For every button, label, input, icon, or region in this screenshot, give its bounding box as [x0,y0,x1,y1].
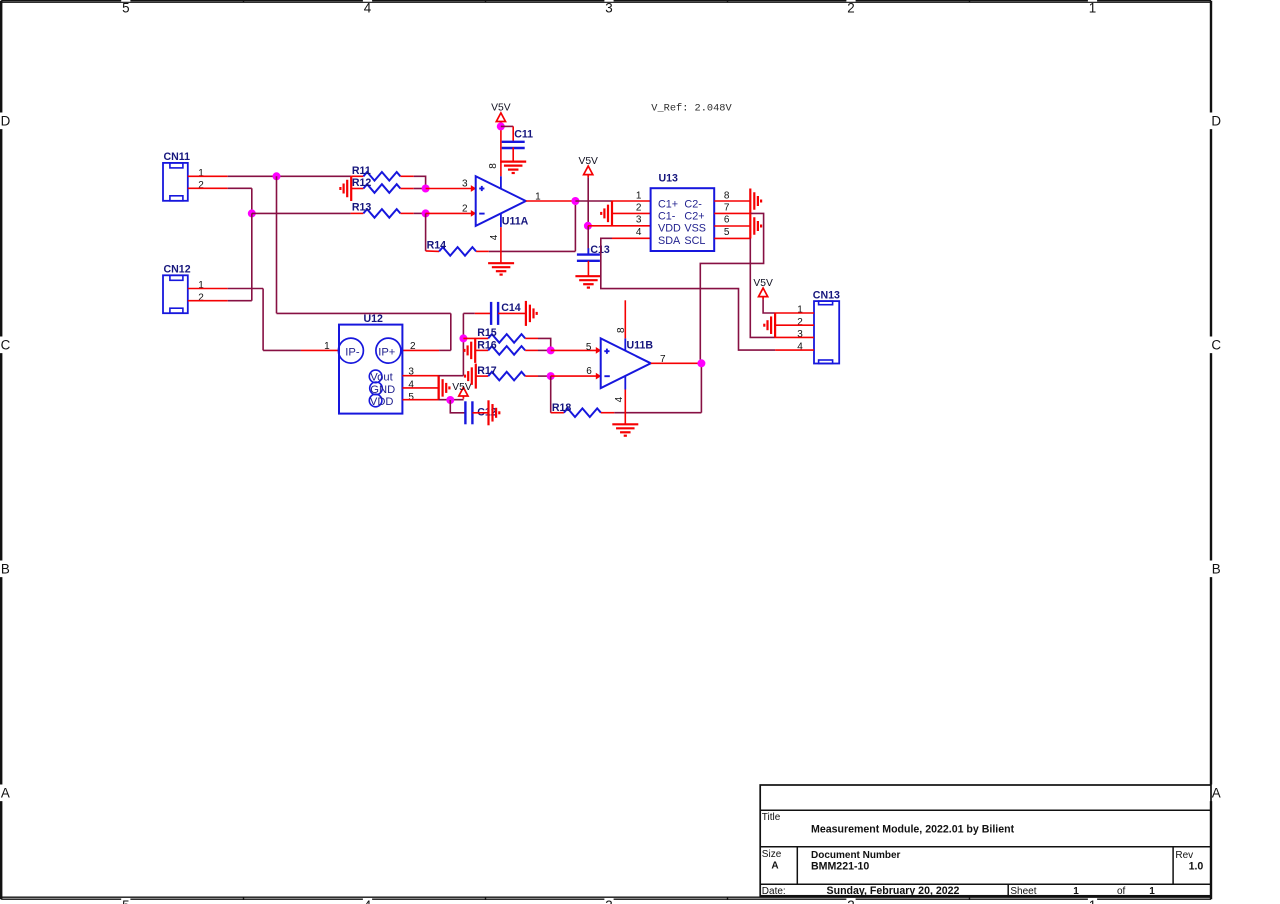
svg-text:V5V: V5V [578,156,598,167]
svg-text:2: 2 [797,317,803,328]
svg-text:Size: Size [762,849,782,860]
wire feedback col575 [574,201,576,252]
CN13 pin 4 label [797,342,803,353]
annotation V_Ref: 2.048V [651,103,732,115]
node junction R15/R16 out [547,346,555,354]
svg-text:1: 1 [198,168,204,179]
svg-text:CN12: CN12 [164,264,191,276]
wire to U11B pin6 [551,373,602,380]
svg-text:IP-: IP- [345,346,360,358]
U11A output wire [526,200,576,202]
U11B output wire [651,362,702,364]
node junction R15 input [459,334,467,342]
ground at R12 input [340,176,351,201]
svg-text:5: 5 [586,342,592,353]
ground below C11 [500,162,526,173]
svg-text:1: 1 [1149,886,1155,897]
svg-text:A: A [1212,785,1221,800]
wire col251 down to CN12 pin2 [251,213,253,300]
resistor R15 [463,327,538,343]
wire CN12 pin1 maroon [228,288,263,290]
wire col463 riser [462,313,464,375]
svg-text:VSS: VSS [684,223,706,235]
U11B pin6 number [586,366,592,377]
power V5V above U11A [491,103,511,125]
sheet border right line [1210,1,1212,900]
svg-text:U11B: U11B [627,340,654,352]
sheet border top outer line [1,0,1211,2]
svg-text:B: B [1212,561,1221,576]
wire col263 down [262,289,264,351]
svg-text:1: 1 [1073,886,1079,897]
wire VDD maroon [439,399,464,401]
wire U13 pin4 red [612,237,651,239]
svg-text:CN11: CN11 [164,151,191,163]
wire to U11B pin5 [551,347,602,354]
svg-text:8: 8 [488,163,499,169]
U13 right pin 8 number [724,190,730,201]
U13 right pin 7 number [724,203,730,214]
svg-text:VDD: VDD [370,396,394,408]
svg-text:4: 4 [489,234,500,240]
svg-text:5: 5 [724,227,730,238]
svg-text:U13: U13 [659,172,679,184]
svg-text:4: 4 [614,396,625,402]
CN11 pin 1 label [198,168,204,179]
ground at R16 input [464,338,475,363]
svg-text:R11: R11 [352,165,371,177]
resistor R14 [426,240,489,256]
wire V5V col588 down [587,177,589,225]
U13 left pin 2 number [636,203,642,214]
U13 left pin 3 number [636,215,642,226]
U13 left pin 1 number [636,190,642,201]
svg-text:V5V: V5V [452,382,472,393]
svg-text:R17: R17 [477,365,497,377]
wire U12 pin4 red [402,387,438,389]
wire R16 out maroon [538,349,551,351]
wire U13 pin1 red [612,200,651,202]
C12 right lead [472,412,488,414]
wire feedback col701 [700,363,702,412]
svg-text:7: 7 [724,203,730,214]
wire CN11 pin2 maroon [228,187,252,189]
U11A pin4 number [489,234,500,240]
svg-text:6: 6 [724,215,730,226]
node junction R13 out [422,209,430,217]
svg-text:R12: R12 [352,177,372,189]
U11B pin7 number [660,354,666,365]
svg-text:3: 3 [605,898,612,904]
svg-text:C2+: C2+ [684,211,704,223]
resistor R12 [351,177,414,193]
svg-text:4: 4 [636,227,642,238]
U11A pin1 number [535,191,541,202]
ground at U12 pin4 [439,375,450,400]
wire R12 out maroon [414,188,426,190]
U12 pin1 number [324,341,330,352]
wire CN13 pin2 red [775,324,814,326]
wire CN13 pin1 red [775,312,814,314]
svg-text:1: 1 [1089,898,1096,904]
CN11 pin 2 label [198,180,204,191]
wire R18 out maroon [614,412,701,414]
svg-text:D: D [1,113,11,128]
wire col251 down [251,188,253,213]
ground at U13 pin6 [750,214,761,239]
wire R14 out maroon [489,250,576,252]
svg-text:BMM221-10: BMM221-10 [811,860,869,872]
sheet border left line [0,1,2,900]
CN12 pin 1 label [198,280,204,291]
wire IP+ horizontal y313 [277,312,451,314]
U11A pin8 stub blue [500,176,502,188]
U11B pin8 stub blue [624,338,626,350]
svg-text:5: 5 [408,392,414,403]
ground at U13 pin8 [750,189,761,214]
capacitor C14 [491,302,521,325]
wire U12 pin2 maroon [439,349,451,351]
title block text [762,812,1204,897]
wire CN13 pin3 red [775,336,814,338]
U11B pin4 wire red [624,390,626,425]
wire U13 pin6 red [714,225,750,227]
wire C12 lead [450,400,465,413]
svg-text:R13: R13 [352,202,372,214]
svg-text:C: C [1211,337,1221,352]
svg-text:2: 2 [847,898,854,904]
svg-text:Sheet: Sheet [1010,886,1036,897]
node junction VDD/C12 [446,396,454,404]
svg-text:V_Ref: 2.048V: V_Ref: 2.048V [651,103,732,115]
wire R11 out corner [414,176,426,188]
wire U13 pin2 red [612,212,651,214]
sheet border bottom outer line [1,898,1211,900]
U11B pin8 wire red [624,300,626,338]
wire CN11 pin1 red stub [188,175,228,177]
U11A pin3 number [462,178,468,189]
wire Vout to col463 [439,375,464,377]
svg-text:2: 2 [198,180,204,191]
svg-text:Title: Title [762,812,781,823]
svg-text:VDD: VDD [658,223,681,235]
wire CN13 pin4 red [775,349,814,351]
wire CN12 pin1 red stub [188,288,228,290]
chip U12 [338,313,402,414]
node junction CN11p1/riser [273,172,281,180]
U11A pin8 wire red [500,126,502,176]
svg-text:C11: C11 [514,128,533,140]
chip U13 [651,172,715,251]
svg-text:R15: R15 [477,327,497,339]
svg-text:4: 4 [364,0,372,15]
svg-text:2: 2 [462,204,468,215]
svg-text:Sunday, February 20, 2022: Sunday, February 20, 2022 [827,885,960,897]
wire U12 pin5 red [402,399,438,401]
wire R17 out maroon [538,375,551,377]
node junction col251/R13 row [248,209,256,217]
svg-text:U11A: U11A [502,216,529,228]
svg-text:Measurement Module, 2022.01 by: Measurement Module, 2022.01 by Bilient [811,824,1015,836]
U12 pin5 number [408,392,414,403]
ground right of C12 [489,400,500,425]
svg-text:3: 3 [462,178,468,189]
wire to U11A pin3 [426,185,477,192]
svg-text:of: of [1117,886,1126,897]
svg-text:4: 4 [408,380,414,391]
svg-text:3: 3 [605,0,612,15]
connector CN12 [163,264,191,314]
ground at U13 pin2 [601,201,612,226]
svg-text:D: D [1211,113,1221,128]
connector CN11 [163,151,190,201]
node junction U11A out [571,197,579,205]
CN13 pin 2 label [797,317,803,328]
wire CN12 pin2 row maroon [228,300,252,302]
node junction U11B out [697,359,705,367]
wire C14 left lead [475,312,491,314]
C14 right lead [498,312,526,314]
svg-text:Date:: Date: [762,886,786,897]
capacitor C11 lead [501,126,513,141]
wire to U11A pin2 [426,210,477,217]
U11A pin8 number [488,163,499,169]
node junction R11/R12 out [422,185,430,193]
title block frame [760,785,1211,896]
C11 bottom lead [512,147,514,161]
svg-text:5: 5 [122,0,129,15]
wire U13 pin3 red [588,225,651,227]
U11B pin4 number [614,396,625,402]
U11B pin5 number [586,342,592,353]
sheet border bottom inner line [1,896,1211,898]
ground at CN13 pin2 [764,313,775,338]
svg-text:1.0: 1.0 [1189,860,1204,872]
svg-text:B: B [1,561,10,576]
svg-text:2: 2 [636,203,642,214]
capacitor C11 [502,128,533,148]
op-amp U11A [476,176,529,227]
svg-text:R16: R16 [477,340,497,352]
svg-text:3: 3 [636,215,642,226]
wire col425 down to R14 [425,213,427,251]
ground below U11A [488,263,514,274]
border zone ticks [244,0,970,900]
capacitor C13 [577,244,610,261]
CN13 pin 3 label [797,329,803,340]
svg-text:SDA: SDA [658,235,681,247]
wire C2+ route [700,213,763,363]
svg-text:R18: R18 [552,402,572,414]
svg-text:C14: C14 [501,302,521,314]
wire riser col276 down to IP+ line [276,176,278,313]
svg-text:2: 2 [847,0,854,15]
U12 pin2 number [410,341,416,352]
svg-text:V5V: V5V [753,278,773,289]
wire CN11 pin2 red stub [188,187,228,189]
CN13 pin 1 label [797,305,803,316]
wire R13 out maroon [414,212,426,214]
ground at R17 input [465,364,476,389]
wire V5V to C13 [587,226,589,255]
wire SDA maroon [601,238,775,350]
wire U12 pin1 red [301,349,339,351]
U12 pin4 number [408,380,414,391]
svg-text:A: A [771,860,778,871]
wire IP+ riser col450 [450,313,452,350]
power V5V col588 [578,156,598,178]
ground right of C14 [526,301,537,326]
svg-text:V5V: V5V [491,103,511,114]
svg-text:C1-: C1- [658,211,676,223]
node junction V5V/C11 [497,122,505,130]
svg-text:U12: U12 [364,313,384,325]
node junction V5V/U13 VDD [584,222,592,230]
svg-text:IP+: IP+ [378,346,395,358]
ground below U11B [612,424,638,435]
svg-text:2: 2 [198,292,204,303]
svg-text:C2-: C2- [684,198,702,210]
wire to U12 pin1 maroon [263,349,301,351]
wire C14 top corner [463,312,474,314]
C13 bottom lead [587,261,589,276]
U11B pin4 stub blue [624,376,626,390]
U13 left pin 4 number [636,227,642,238]
wire CN11 pin1 to R11 [228,175,352,177]
svg-text:6: 6 [586,366,592,377]
wire V5V to CN13 pin1 [763,299,775,313]
resistor R16 [475,340,538,355]
svg-text:4: 4 [364,898,372,904]
svg-text:2: 2 [410,341,416,352]
svg-text:1: 1 [1089,0,1096,15]
svg-text:A: A [1,785,10,800]
resistor R18 [551,402,615,417]
svg-text:C1+: C1+ [658,198,678,210]
node junction R17 out [547,372,555,380]
op-amp U11B [601,338,654,388]
U12 pin3 number [408,366,414,377]
svg-text:R14: R14 [427,240,447,252]
svg-text:1: 1 [324,341,330,352]
power V5V near CN13 [753,278,773,300]
svg-text:CN13: CN13 [813,289,840,301]
wire R13 row maroon [252,212,351,214]
resistor R17 [476,365,538,380]
wire SCL route [750,238,775,337]
wire U13 pin1 from out maroon [575,200,612,202]
CN12 pin 2 label [198,292,204,303]
U13 right pin 5 number [724,227,730,238]
wire col550 down to R18 [550,376,552,413]
resistor R11 [351,165,414,181]
svg-text:1: 1 [198,280,204,291]
svg-text:SCL: SCL [684,235,705,247]
wire U13 pin7 red [714,212,750,214]
connector CN13 [813,289,840,363]
svg-text:8: 8 [724,190,730,201]
svg-text:1: 1 [797,305,803,316]
U11A pin2 number [462,204,468,215]
U13 right pin 6 number [724,215,730,226]
wire R15 out corner [538,338,551,350]
ground below C13 [575,276,601,287]
svg-text:3: 3 [797,329,803,340]
U11B pin8 number [616,327,627,333]
power V5V near U12 [452,382,472,399]
sheet border top inner line [1,1,1211,3]
svg-text:5: 5 [122,898,129,904]
U11A pin4 wire red [500,227,502,263]
U11A pin4 stub blue [500,213,502,227]
wire U12 pin3 red [402,375,438,377]
resistor R13 [351,202,414,218]
svg-text:1: 1 [636,190,642,201]
wire U12 pin2 red [402,349,439,351]
wire U13 pin5 red [714,237,750,239]
wire U13 pin8 red [714,200,750,202]
svg-text:C: C [1,337,11,352]
capacitor C12 [465,401,496,424]
wire CN12 pin2 red stub [188,300,228,302]
